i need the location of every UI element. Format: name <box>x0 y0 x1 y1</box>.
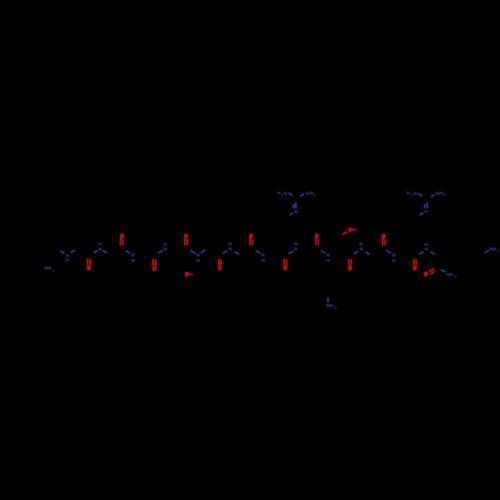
guanidine group 2: H2N label <box>407 191 423 197</box>
svg-text:H: H <box>294 242 298 248</box>
carbonyl C1=O1 (O below) <box>87 259 90 271</box>
svg-text:NH: NH <box>326 303 334 309</box>
side chain OH label (residue 4) <box>186 272 194 278</box>
guanidine group 1: C=N double bond and N label <box>290 202 299 215</box>
guanidine group 2: NH2 label <box>431 191 445 197</box>
carbonyl C4=O4 (O above) <box>185 234 188 245</box>
svg-text:2: 2 <box>52 269 54 273</box>
N-terminal amine NH2 label <box>44 266 54 273</box>
backbone amide N10 (H above) <box>353 242 369 255</box>
backbone amide N8 (H above) <box>288 242 298 254</box>
svg-text:H: H <box>353 228 357 234</box>
carbonyl C3=O3 (O below) <box>153 259 156 272</box>
svg-text:N: N <box>392 253 396 259</box>
svg-text:N: N <box>424 209 428 215</box>
backbone amide N7 (H below) <box>256 251 265 264</box>
svg-text:2: 2 <box>455 275 457 279</box>
lysine side chain NH2 (bottom) <box>326 297 336 310</box>
svg-text:N: N <box>196 253 200 259</box>
svg-text:2: 2 <box>497 250 499 254</box>
svg-text:2: 2 <box>411 193 413 197</box>
svg-text:2: 2 <box>443 193 445 197</box>
side chain OH label (residue 9) with bond stub <box>342 228 356 235</box>
backbone amide N12 (H above) <box>419 242 435 255</box>
carbonyl C6=O6 (O above) <box>250 234 253 245</box>
svg-text:H: H <box>424 242 428 248</box>
carbonyl C10=O10 (O above) <box>382 234 385 245</box>
svg-text:H: H <box>326 258 330 264</box>
guanidine group 1: NH2 label <box>300 191 315 197</box>
svg-text:H: H <box>392 258 396 264</box>
svg-text:H: H <box>163 242 167 248</box>
carbonyl C2=O2 (O above) <box>120 234 123 245</box>
backbone amide N1 (H below) <box>60 250 75 264</box>
svg-text:N: N <box>131 253 135 259</box>
svg-text:2: 2 <box>313 193 315 197</box>
svg-text:H: H <box>261 258 265 264</box>
svg-text:H: H <box>66 258 70 264</box>
svg-text:H: H <box>98 242 102 248</box>
C-terminal amide: O label and diagonal C=O double bond <box>425 268 435 276</box>
svg-text:NH: NH <box>44 266 52 272</box>
svg-text:N: N <box>284 191 288 197</box>
svg-text:H: H <box>359 242 363 248</box>
backbone amide N2 (H above) <box>94 242 108 253</box>
svg-text:N: N <box>414 191 418 197</box>
svg-text:2: 2 <box>335 306 337 310</box>
svg-text:NH: NH <box>446 272 454 278</box>
svg-text:N: N <box>294 209 298 215</box>
carbonyl C8=O8 (O above) <box>315 235 318 246</box>
backbone amide N4 (H above) <box>158 242 168 253</box>
backbone amide N5 (H below) <box>190 250 205 264</box>
backbone amide N6 (H above) <box>223 242 240 254</box>
backbone amide N11 (H below) <box>386 250 396 264</box>
svg-text:N: N <box>261 253 265 259</box>
svg-text:H: H <box>190 272 194 278</box>
svg-text:H: H <box>131 258 135 264</box>
backbone amide N3 (H below) <box>126 251 136 265</box>
guanidine group 2: C=N double bond and N label <box>420 202 429 215</box>
svg-text:N: N <box>326 252 330 258</box>
svg-text:H: H <box>196 258 200 264</box>
guanidine group 1: H2N label <box>277 191 292 197</box>
backbone amide N9 (H below) <box>321 251 330 264</box>
svg-text:NH: NH <box>489 247 497 253</box>
carbonyl C11=O11 (O below) <box>413 259 416 271</box>
carbonyl C5=O5 (O below) <box>218 259 221 271</box>
lysine side chain NH2 (far right) <box>484 247 499 254</box>
C-terminal amide: NH2 label with bond stub <box>441 270 457 280</box>
carbonyl C7=O7 (O below) <box>284 259 287 271</box>
svg-text:H: H <box>228 242 232 248</box>
carbonyl C9=O9 (O below) <box>349 259 352 271</box>
